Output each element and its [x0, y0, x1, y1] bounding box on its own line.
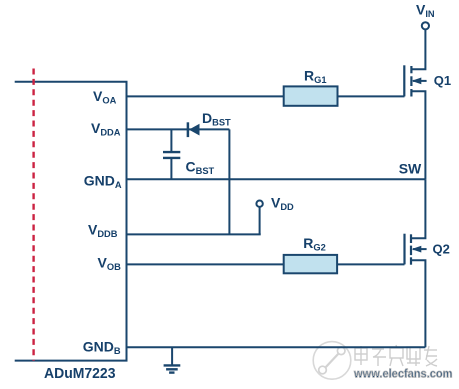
wire VDD stem: [259, 207, 261, 235]
transistor Q2 channel segment drain: [410, 234, 412, 243]
ground stem: [171, 347, 173, 365]
transistor Q1 channel segment source: [410, 89, 412, 97]
svg-text:ADuM7223: ADuM7223: [44, 365, 116, 382]
diode DBST cathode bar: [187, 122, 190, 137]
transistor Q1 body arrow: [413, 80, 427, 82]
terminal VIN circle: [422, 22, 429, 29]
wire GNDA / SW node: [127, 178, 426, 180]
ground bar 1: [164, 364, 181, 366]
wire VOB pin to Q2 gate: [127, 263, 405, 265]
resistor RG1: [284, 86, 338, 105]
svg-text:SW: SW: [399, 161, 422, 177]
wire CBST bottom branch: [170, 159, 172, 179]
wire VDDA pin: [127, 128, 230, 130]
transistor Q2 channel segment body: [410, 246, 412, 256]
ground bar 3: [169, 371, 174, 373]
wire CBST top branch: [170, 129, 172, 151]
transistor Q2 body arrow: [413, 248, 427, 250]
transistor Q1 channel segment drain: [410, 66, 412, 73]
wire Q1 drain lead: [411, 30, 425, 70]
svg-text:Q2: Q2: [433, 241, 450, 256]
transistor Q1 channel segment body: [410, 76, 412, 86]
terminal VDD circle: [256, 201, 262, 207]
wire Q2 drain lead to SW: [411, 179, 425, 238]
transistor Q1 gate bar: [403, 65, 405, 96]
watermark chinese characters (stylized): [355, 345, 437, 366]
wire Q2 source lead to GNDB: [411, 260, 425, 347]
svg-text:Q1: Q1: [434, 73, 451, 88]
capacitor CBST top plate: [163, 151, 180, 153]
diode DBST triangle: [189, 124, 200, 136]
wire Q1 source lead to SW: [411, 91, 425, 179]
resistor RG2: [284, 255, 337, 273]
capacitor CBST bottom plate: [163, 157, 180, 159]
watermark logo circle: [313, 342, 351, 380]
IC U1 ADuM7223 box outline: [15, 82, 127, 361]
transistor Q2 channel segment source: [410, 257, 412, 264]
wire VDDB pin: [127, 233, 261, 235]
wire GNDB pin: [127, 346, 426, 348]
transistor Q2 gate bar: [403, 234, 405, 265]
ground bar 2: [166, 368, 178, 370]
isolation barrier (red dashed line): [32, 69, 34, 361]
wire VOA pin to Q1 gate: [127, 95, 405, 97]
svg-text:www.elecfans.com: www.elecfans.com: [353, 367, 452, 381]
wire bootstrap vertical (VDD to DBST anode): [228, 129, 230, 234]
